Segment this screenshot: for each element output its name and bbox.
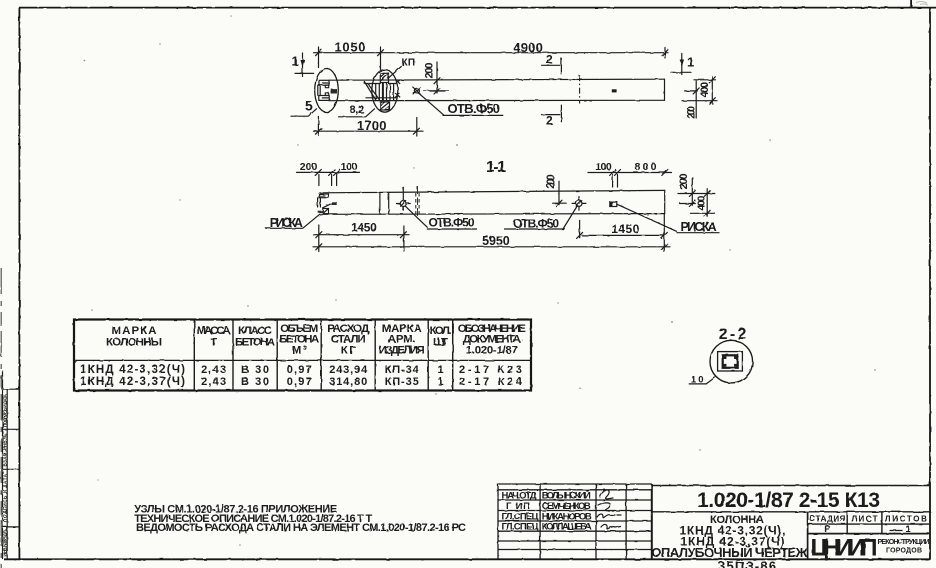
svg-text:КЛАСС: КЛАСС (238, 325, 272, 337)
hidden console dashes (415, 193, 417, 216)
svg-text:РИСКА: РИСКА (681, 220, 717, 234)
bottom hatched block (318, 211, 323, 213)
console flange lines (365, 83, 381, 85)
drawing frame top line (19, 7, 936, 9)
column bar bottom edge (329, 99, 665, 101)
left end bracket (317, 198, 319, 207)
signature 4 (601, 524, 620, 528)
svg-text:ИНВ.№ПОДЛ.: ИНВ.№ПОДЛ. (3, 530, 8, 557)
left end fork bottom prong (319, 96, 329, 101)
dim 100 800 top right (588, 172, 672, 174)
svg-text:8,2: 8,2 (350, 104, 365, 116)
svg-text:ВЗАМ.ИНВ.№: ВЗАМ.ИНВ.№ (3, 434, 8, 467)
svg-text:Г ИП: Г ИП (506, 501, 530, 512)
title block outline left part (498, 484, 652, 559)
left end fork top prong (319, 80, 329, 85)
vertical dim 200 at hole 2 (558, 181, 560, 205)
fork left bracket (317, 85, 319, 95)
svg-text:СТАДИЯ: СТАДИЯ (809, 515, 845, 524)
svg-text:1: 1 (905, 524, 911, 535)
leader RISKA right (617, 204, 677, 231)
svg-text:ОТВ.Ф50: ОТВ.Ф50 (513, 216, 559, 230)
left margin stamp column (3, 371, 20, 559)
bar right end (664, 190, 666, 213)
svg-text:ГОРОДОВ: ГОРОДОВ (886, 548, 922, 555)
svg-text:НАЧ.ОТД: НАЧ.ОТД (502, 490, 537, 501)
drawing frame bottom line (4, 558, 930, 560)
svg-text:ГЛ.СПЕЦ: ГЛ.СПЕЦ (502, 522, 539, 533)
svg-text:КОЛОННЫ: КОЛОННЫ (106, 337, 162, 349)
dim 200 100 top left (297, 171, 360, 173)
leader for KP (388, 67, 402, 79)
svg-text:ОТВ.Ф50: ОТВ.Ф50 (429, 215, 475, 229)
svg-text:В 30: В 30 (241, 376, 269, 388)
paper left edge shadow (0, 268, 2, 568)
section 2-2 cut line (579, 75, 581, 103)
drawing frame left line (18, 8, 20, 560)
detail circle KP (console) (372, 70, 398, 113)
svg-text:В 30: В 30 (241, 364, 269, 376)
console top stub (380, 73, 388, 82)
bar bottom edge (320, 213, 665, 216)
svg-text:1-1: 1-1 (486, 159, 506, 176)
console vertical ribs (376, 84, 394, 100)
title block outline right part (652, 486, 930, 560)
svg-text:1КНД 42-3,32(Ч): 1КНД 42-3,32(Ч) (80, 364, 185, 376)
right side dim 200 (678, 193, 715, 195)
hole 1 in section (396, 197, 410, 211)
svg-text:200: 200 (687, 106, 698, 119)
svg-text:ШТ: ШТ (433, 337, 448, 349)
svg-text:М³: М³ (292, 345, 307, 357)
svg-text:1: 1 (437, 376, 443, 388)
embedded plate (filled) (331, 89, 337, 94)
svg-text:100: 100 (595, 161, 612, 173)
svg-text:ВЕДОМОСТЬ РАСХОДА СТАЛИ НА ЭЛЕ: ВЕДОМОСТЬ РАСХОДА СТАЛИ НА ЭЛЕМЕНТ СМ.1.… (136, 522, 466, 534)
weld ticks right of console (396, 80, 400, 84)
table column lines (194, 320, 452, 391)
column bar right end (664, 79, 666, 100)
leader hole 2 (563, 206, 577, 229)
svg-text:ВОЛЫНСКИЙ: ВОЛЫНСКИЙ (542, 489, 591, 501)
svg-text:1: 1 (437, 364, 443, 376)
svg-text:400: 400 (695, 196, 707, 211)
svg-text:СТАЛИ: СТАЛИ (331, 334, 366, 346)
svg-text:2: 2 (546, 113, 553, 127)
svg-text:1.020-1/87: 1.020-1/87 (466, 345, 518, 357)
top right stamp notch (911, 0, 913, 8)
column outline square (718, 352, 743, 371)
leader hole 1 (406, 206, 428, 227)
svg-text:4900: 4900 (513, 40, 543, 55)
riska plate with tag (332, 202, 337, 205)
svg-text:243,94: 243,94 (329, 364, 368, 376)
column bar top edge (329, 79, 665, 80)
dim 1450 left (313, 234, 409, 236)
right side dim 400 (691, 212, 715, 214)
rebar corner dots (724, 356, 727, 359)
svg-text:5950: 5950 (482, 234, 510, 248)
left end top plate (319, 194, 329, 198)
dim 1450 right (582, 234, 664, 236)
svg-text:КГ: КГ (341, 345, 357, 357)
dimension line 1050 / 4900 (314, 52, 669, 54)
signature 1 (600, 490, 613, 499)
svg-text:1450: 1450 (611, 222, 639, 236)
riska mark 2 (610, 202, 617, 207)
svg-text:1КНД 42-3,37(Ч): 1КНД 42-3,37(Ч) (80, 376, 185, 388)
dim 5950 (313, 246, 670, 248)
svg-text:200: 200 (678, 173, 690, 189)
svg-text:1050: 1050 (335, 39, 366, 54)
scan noise speckles (83, 15, 876, 546)
svg-text:ОТВ.Ф50: ОТВ.Ф50 (448, 101, 501, 116)
joint lines (379, 192, 381, 214)
leader for label 5 (291, 109, 317, 116)
svg-text:ИЗДЕЛИЯ: ИЗДЕЛИЯ (379, 345, 425, 357)
svg-text:1450: 1450 (351, 221, 377, 235)
right side dim 400 (694, 79, 716, 81)
centerline above hole 1 (402, 187, 404, 196)
leader for 8,2 (339, 109, 375, 117)
svg-text:1700: 1700 (357, 118, 387, 133)
svg-text:КОЛ.: КОЛ. (430, 325, 452, 337)
svg-text:400: 400 (699, 82, 711, 98)
wedge hatch before console (364, 82, 375, 100)
svg-text:КП-34: КП-34 (385, 364, 420, 376)
signature 2 (598, 503, 610, 511)
right side dim 200 (685, 90, 698, 92)
section mark 2 bottom (560, 105, 562, 122)
svg-text:200: 200 (300, 161, 318, 173)
section circle (710, 340, 753, 383)
svg-text:МАРКА: МАРКА (112, 325, 157, 337)
hole centerline (423, 90, 449, 92)
svg-text:314,80: 314,80 (329, 376, 367, 388)
svg-text:ПОДПИСЬ И ДАТА: ПОДПИСЬ И ДАТА (3, 473, 8, 522)
section mark 1 right (671, 71, 691, 73)
svg-text:МАССА: МАССА (197, 325, 231, 337)
svg-text:ЛИСТОВ: ЛИСТОВ (885, 515, 927, 524)
vertical dim 200 to hole (436, 62, 438, 93)
svg-text:2,43: 2,43 (201, 376, 226, 388)
reinforcement square (723, 355, 738, 368)
bar top edge (320, 190, 665, 192)
leader OTV F50 (418, 93, 443, 115)
svg-text:35ПЗ-86: 35ПЗ-86 (718, 559, 776, 568)
svg-text:800: 800 (635, 161, 657, 173)
svg-text:5: 5 (305, 98, 313, 114)
svg-text:1: 1 (292, 54, 299, 69)
svg-text:ЦНИИП: ЦНИИП (811, 534, 878, 561)
svg-text:100: 100 (341, 161, 358, 173)
svg-text:0,97: 0,97 (287, 376, 312, 388)
hole 2 in section (572, 197, 586, 211)
svg-text:200: 200 (545, 174, 557, 189)
svg-text:КОЛЛАШЕВА: КОЛЛАШЕВА (542, 522, 592, 533)
table header separator (74, 359, 531, 361)
svg-text:2,43: 2,43 (201, 364, 226, 376)
svg-text:ПОДПИСЬ И ДАТА: ПОДПИСЬ И ДАТА (3, 393, 8, 427)
signature 3 (597, 514, 621, 518)
svg-text:1: 1 (687, 55, 694, 70)
svg-text:2: 2 (546, 53, 553, 67)
svg-text:200: 200 (424, 63, 436, 79)
detail circle 5 (left end) (315, 69, 339, 113)
riska mark on elevation (612, 89, 617, 92)
svg-text:1.020-1/87 2-15 К13: 1.020-1/87 2-15 К13 (697, 489, 880, 512)
svg-text:РЕКОНСТРУКЦИИ: РЕКОНСТРУКЦИИ (878, 539, 930, 546)
svg-text:КП-35: КП-35 (385, 376, 419, 388)
table outer border (74, 320, 531, 391)
svg-text:Т: Т (210, 337, 217, 349)
console bottom stub hatched (380, 102, 389, 110)
dimension 1700 (314, 130, 424, 132)
fork hooks (325, 85, 328, 88)
svg-text:0,97: 0,97 (287, 364, 312, 376)
drawing frame right line (929, 8, 931, 560)
svg-text:КП: КП (402, 58, 416, 69)
svg-text:БЕТОНА: БЕТОНА (235, 337, 275, 349)
hole OTV F50 symbol (413, 87, 420, 94)
svg-text:СЕМЧЕНКОВ: СЕМЧЕНКОВ (542, 501, 591, 512)
